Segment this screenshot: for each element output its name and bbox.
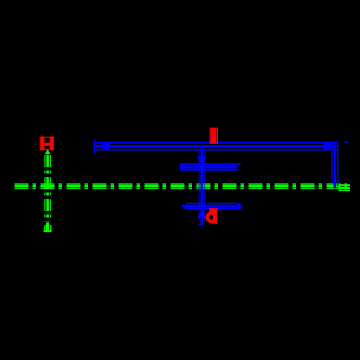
bottom end bar of stem bbox=[199, 223, 204, 225]
right vertical drop line (blue, from l line down to axis) bbox=[332, 143, 338, 189]
top plate bar (blue horizontal above axis) bbox=[181, 164, 238, 170]
arrowhead bottom of H line (crown shaped end) bbox=[44, 223, 52, 233]
bottom plate bar (blue horizontal below axis) bbox=[182, 204, 241, 209]
dimension line l (blue horizontal at top) bbox=[96, 143, 337, 150]
top plate left end tick bbox=[180, 164, 183, 171]
right arrowhead of l dimension bbox=[324, 142, 339, 150]
bottom plate right end tick bbox=[238, 203, 241, 209]
central vertical stem (blue, d dimension line) bbox=[199, 148, 204, 225]
arrowhead pointing down at top bar bbox=[197, 157, 206, 166]
top plate right end nub bbox=[237, 163, 240, 165]
left arrowhead of l dimension bbox=[95, 142, 110, 150]
optical axis (green dash-dot centerline) bbox=[15, 184, 348, 189]
arrowhead pointing up at bottom bar bbox=[197, 209, 206, 218]
small nub right of arrow bbox=[345, 141, 348, 143]
label l (red) bbox=[210, 128, 219, 144]
arrowhead top of H line (pointing up) bbox=[45, 149, 50, 155]
bottom plate left end tick bbox=[185, 205, 188, 210]
label H (red) bbox=[39, 137, 54, 151]
node H vertical dashed line (object line through axis) bbox=[45, 155, 51, 222]
left end tick of l dimension bbox=[94, 140, 96, 153]
label d (red) bbox=[207, 213, 215, 221]
axis end dash (fat dash at right end of axis) bbox=[339, 184, 351, 191]
